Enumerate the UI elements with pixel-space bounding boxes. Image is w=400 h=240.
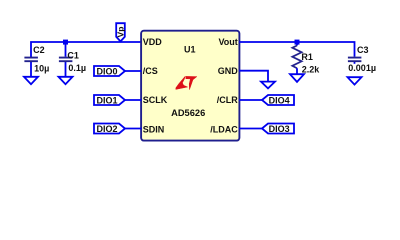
svg-text:SDIN: SDIN <box>143 124 165 134</box>
svg-text:/CS: /CS <box>143 66 158 76</box>
svg-text:DIO4: DIO4 <box>269 95 290 105</box>
capacitor C1 <box>59 42 86 77</box>
ground (C1) <box>59 77 73 84</box>
svg-text:Vp: Vp <box>116 27 126 38</box>
svg-text:10µ: 10µ <box>34 63 49 73</box>
svg-text:0.1µ: 0.1µ <box>68 63 86 73</box>
svg-text:DIO2: DIO2 <box>97 124 118 134</box>
wire DIO2 to SDIN <box>125 128 142 130</box>
wire top rail Vp to VDD <box>31 42 141 57</box>
wire DIO1 to SCLK <box>125 99 142 101</box>
svg-text:SCLK: SCLK <box>143 95 168 105</box>
ground (C2) <box>24 77 38 84</box>
ground (C3) <box>348 77 362 84</box>
ground (R1) <box>290 74 304 82</box>
ground (GND pin) <box>261 82 275 89</box>
svg-text:R1: R1 <box>301 52 313 62</box>
svg-text:C1: C1 <box>67 51 79 61</box>
IC U1 AD5626 body <box>141 31 239 141</box>
node junction dot at C1 <box>63 40 68 45</box>
wire /LDAC to DIO3 <box>239 128 262 130</box>
wire DIO0 to /CS <box>125 70 142 72</box>
svg-text:GND: GND <box>218 66 239 76</box>
wire Vout rail to C3 <box>239 42 355 57</box>
U1 pin labels: VDD /CS SCLK SDIN Vout GND /CLR /LDAC, name U1, part AD5626 <box>143 37 239 134</box>
capacitor C3 <box>348 45 376 73</box>
LT logo <box>176 76 197 89</box>
svg-text:/LDAC: /LDAC <box>210 124 238 134</box>
svg-text:VDD: VDD <box>143 37 163 47</box>
svg-text:2.2k: 2.2k <box>302 64 321 74</box>
node DIO1 flag <box>94 95 125 105</box>
svg-text:C3: C3 <box>357 45 369 55</box>
svg-text:C2: C2 <box>33 45 45 55</box>
svg-text:0.001µ: 0.001µ <box>348 63 376 73</box>
svg-text:U1: U1 <box>184 45 196 55</box>
svg-text:/CLR: /CLR <box>217 95 238 105</box>
svg-text:AD5626: AD5626 <box>171 108 205 118</box>
svg-text:DIO1: DIO1 <box>97 95 118 105</box>
wire GND pin to ground <box>239 71 268 82</box>
svg-text:Vout: Vout <box>218 37 237 47</box>
node Vp net flag <box>116 23 126 41</box>
node DIO0 flag <box>94 66 125 76</box>
node DIO3 flag <box>262 124 294 134</box>
svg-text:DIO3: DIO3 <box>269 124 290 134</box>
svg-text:DIO0: DIO0 <box>97 66 118 76</box>
wire /CLR to DIO4 <box>239 99 262 101</box>
node DIO2 flag <box>94 124 125 134</box>
capacitor C2 <box>24 45 49 77</box>
node DIO4 flag <box>262 95 294 105</box>
resistor R1 <box>292 42 320 74</box>
node junction dot at R1 <box>295 40 300 45</box>
